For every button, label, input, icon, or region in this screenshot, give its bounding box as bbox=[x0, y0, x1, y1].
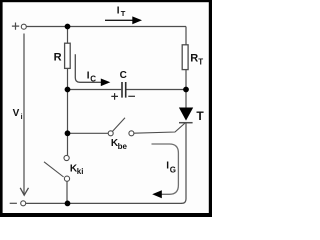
wire : mid-rail junction down to thyristor anode bbox=[185, 90, 187, 109]
capacitor C right plate bbox=[125, 82, 127, 98]
svg-text:R: R bbox=[54, 51, 62, 63]
svg-text:i: i bbox=[21, 114, 23, 121]
switch Kbe left contact circle bbox=[108, 131, 113, 136]
wire : Kbe node to Kbe left contact bbox=[68, 132, 109, 134]
annotation IT arrow bbox=[105, 19, 133, 21]
capacitor + polarity mark bbox=[111, 93, 118, 100]
svg-text:I: I bbox=[87, 71, 90, 82]
wire : Kbe node down to Kki switch bbox=[67, 133, 69, 155]
switch Kbe blade bbox=[113, 118, 125, 131]
wire : top rail from + terminal to right branch bbox=[27, 26, 187, 28]
node junction dot bottom rail bbox=[65, 201, 71, 207]
switch Kki blade bbox=[44, 162, 64, 177]
wire : RT to mid-rail junction bbox=[185, 70, 187, 90]
resistor R body bbox=[65, 43, 71, 68]
svg-text:V: V bbox=[13, 108, 20, 119]
node junction dot top rail / R branch bbox=[65, 24, 71, 30]
wire : Kki bottom contact to bottom rail bbox=[66, 181, 68, 203]
wire : resistor R to mid junction and down to Kbe node bbox=[67, 68, 69, 133]
capacitor C left plate bbox=[121, 82, 123, 98]
wire : thyristor cathode down to bottom rail (rounded corner) bbox=[182, 123, 187, 203]
annotation Vi arrow bbox=[23, 34, 25, 195]
svg-text:T: T bbox=[196, 109, 204, 123]
svg-text:C: C bbox=[120, 70, 127, 81]
wire : left branch, top rail to resistor R bbox=[67, 27, 69, 44]
thyristor cathode bar bbox=[179, 122, 193, 124]
svg-text:T: T bbox=[198, 57, 203, 66]
wire : bottom rail bbox=[26, 202, 182, 204]
wire : Kbe right contact to thyristor gate bbox=[134, 123, 185, 133]
node junction dot mid rail right bbox=[183, 87, 189, 93]
switch Kbe right contact circle bbox=[129, 131, 134, 136]
svg-text:C: C bbox=[90, 74, 96, 83]
svg-text:ki: ki bbox=[77, 167, 84, 176]
svg-text:G: G bbox=[170, 166, 176, 175]
switch Kki bottom contact circle bbox=[64, 176, 69, 181]
resistor RT body bbox=[182, 45, 188, 70]
wire : mid rail left segment to capacitor bbox=[68, 89, 122, 91]
terminal - (bottom left) bbox=[10, 202, 17, 204]
annotation IG arrow bbox=[152, 144, 179, 194]
border frame bbox=[0, 0, 212, 217]
svg-text:I: I bbox=[117, 5, 120, 16]
svg-text:T: T bbox=[121, 9, 126, 18]
capacitor - polarity mark bbox=[128, 95, 135, 97]
switch Kki top contact circle bbox=[64, 155, 69, 160]
wire : mid rail right segment capacitor to right branch bbox=[127, 89, 187, 91]
node junction dot Kbe branch bbox=[65, 130, 71, 136]
svg-text:R: R bbox=[190, 52, 198, 64]
terminal + (top left) bbox=[12, 23, 19, 30]
wire : right branch vertical, top rail to RT bbox=[185, 27, 187, 46]
svg-text:be: be bbox=[118, 142, 128, 151]
annotation IC arrow bbox=[75, 54, 101, 82]
node junction dot mid rail left bbox=[65, 87, 71, 93]
thyristor T triangle bbox=[179, 108, 193, 121]
